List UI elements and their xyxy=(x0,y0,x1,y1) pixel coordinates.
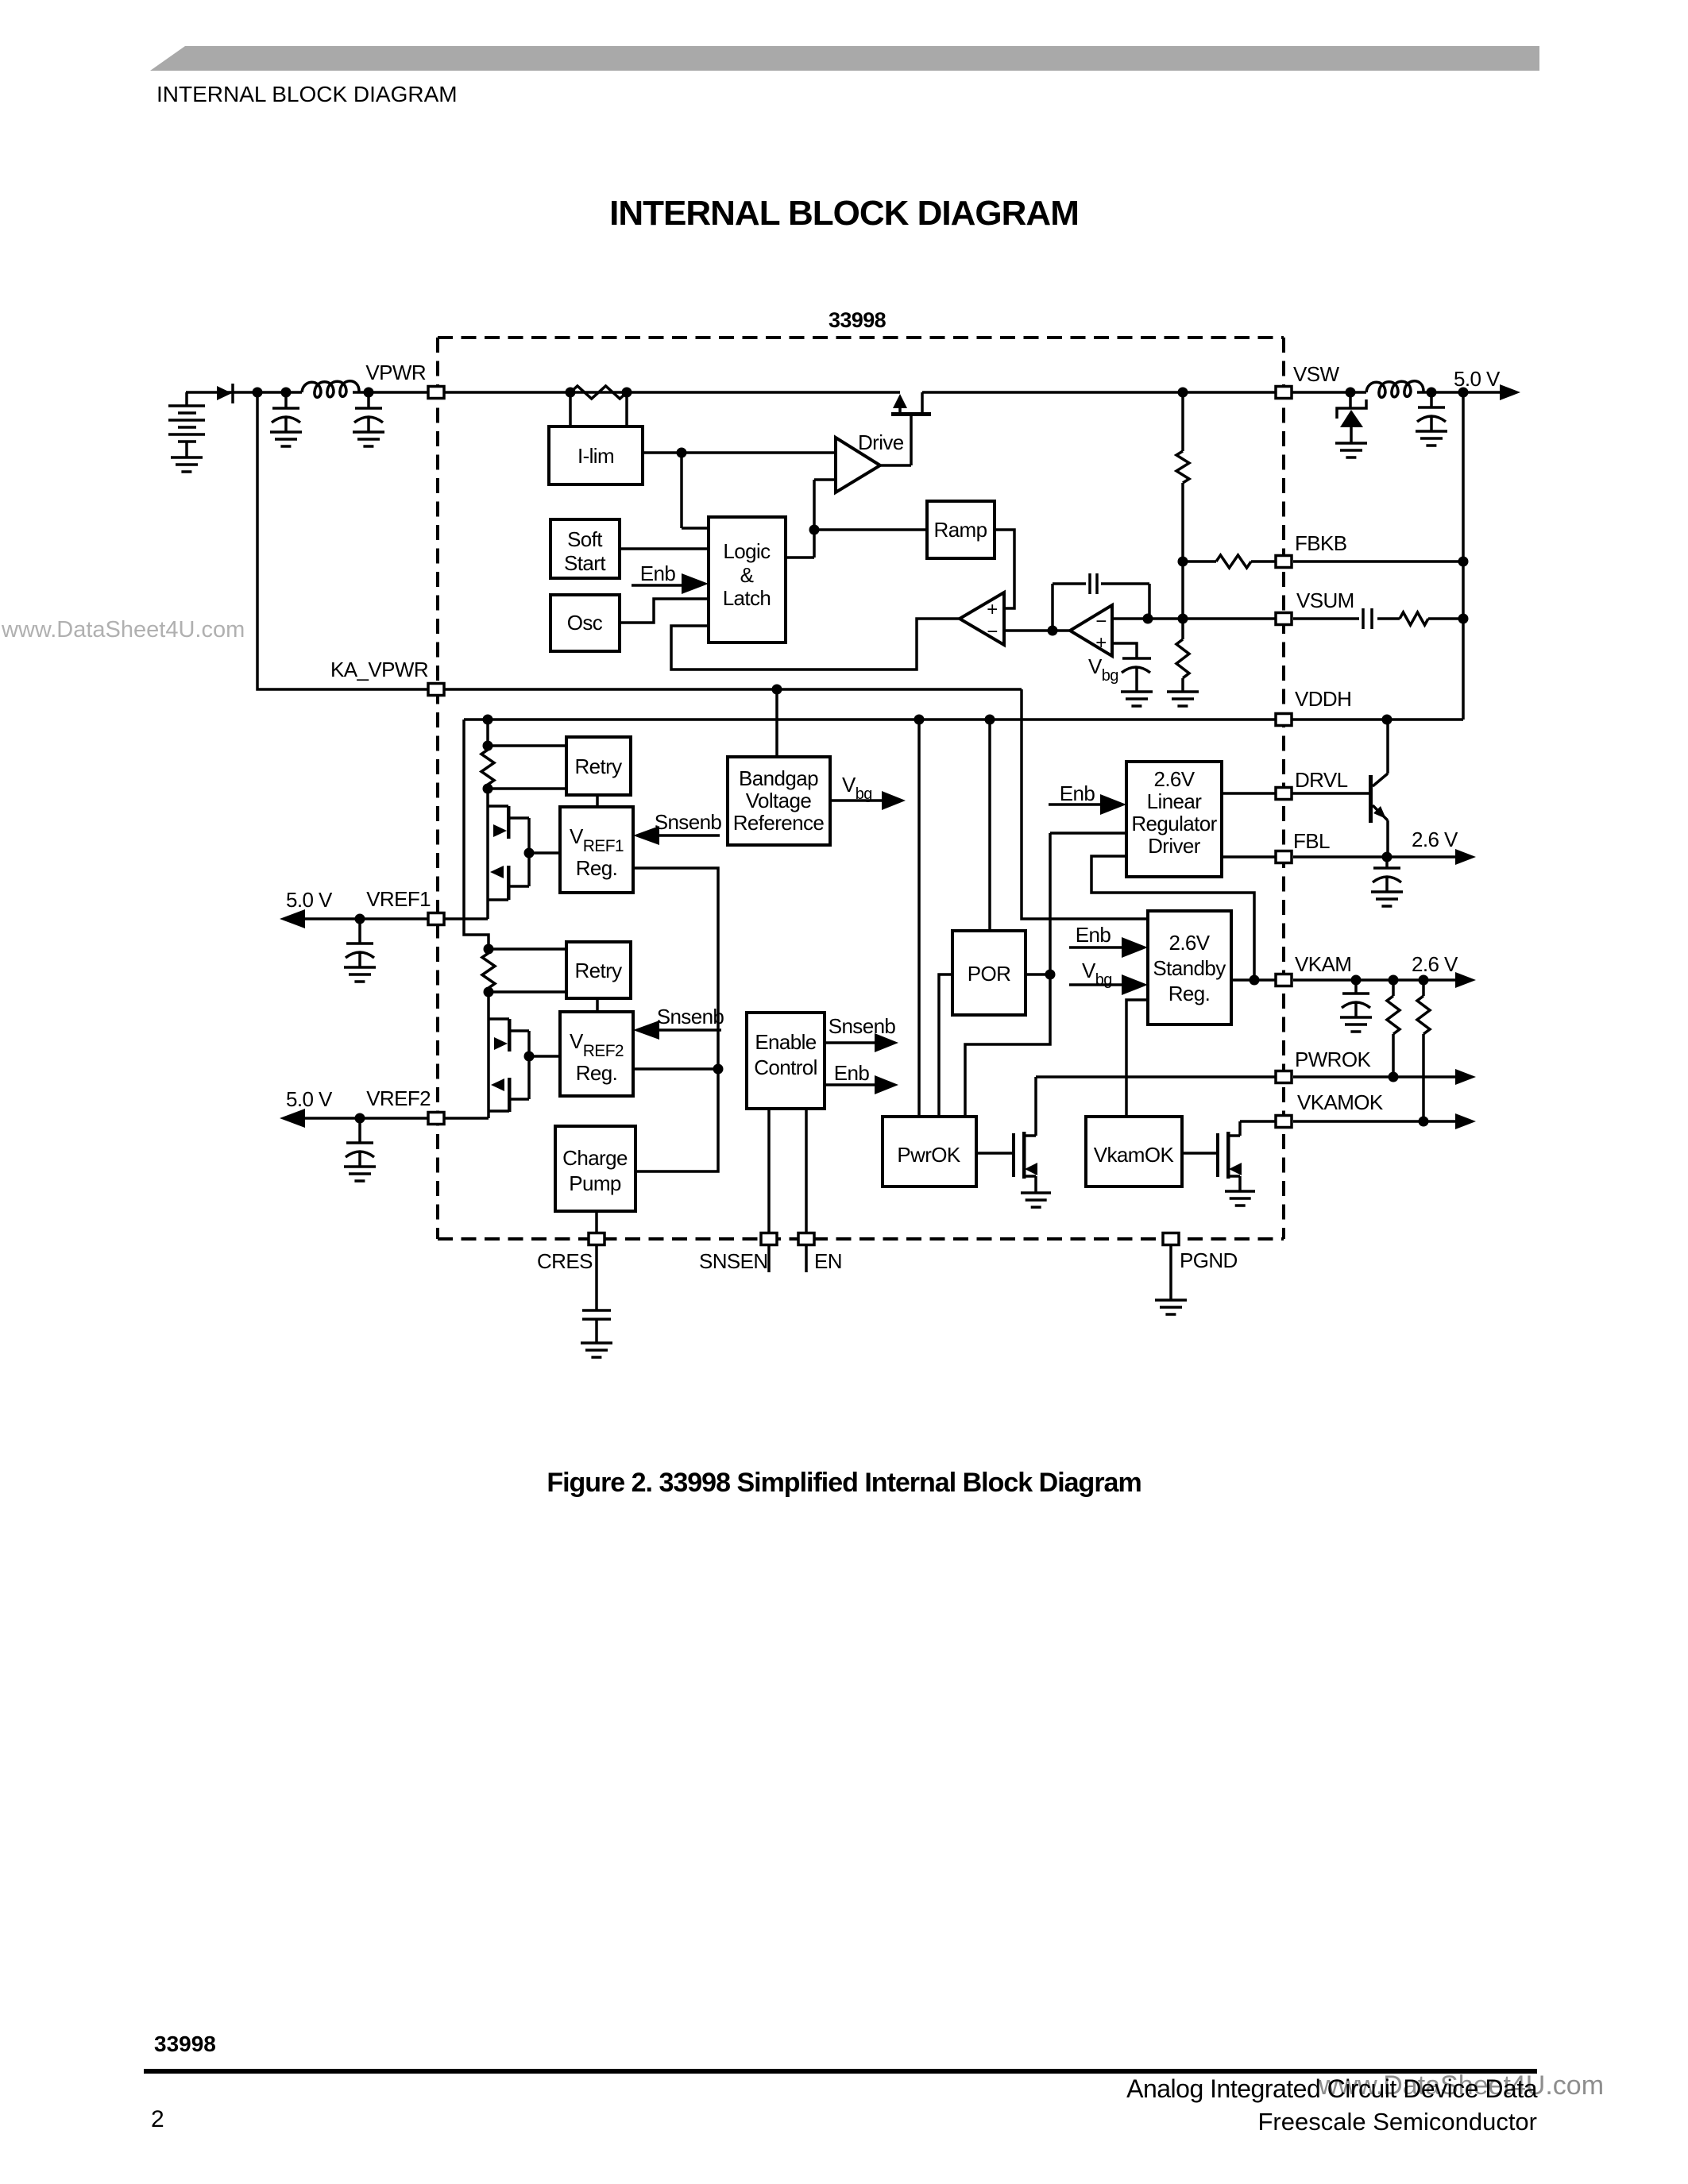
arrow - VKAMOK output xyxy=(1455,1113,1476,1129)
block Enable Control U15 xyxy=(747,1013,825,1109)
pin VDDH xyxy=(1276,714,1292,726)
wire - rail from Q1 to VSW pin xyxy=(922,391,1366,394)
wire - PWROK row xyxy=(1036,1075,1278,1078)
node J30 - R8 joins PWROK xyxy=(1389,1072,1399,1082)
svg-text:Charge: Charge xyxy=(562,1146,628,1170)
node J2 - after L1 xyxy=(364,388,374,398)
label Enb (enable out) xyxy=(834,1061,870,1085)
wire - POR node up to Linear Reg Driver xyxy=(1050,833,1126,974)
svg-text:I-lim: I-lim xyxy=(577,444,614,468)
pin VPWR xyxy=(428,387,444,399)
label Enb (linear reg) xyxy=(1060,781,1095,805)
arrow - VREF1 5.0V output (left) xyxy=(280,909,305,928)
arrow - Vbg output xyxy=(882,791,906,810)
wire - 5V output xyxy=(1417,391,1500,394)
node J14 - 5.0V output tap xyxy=(1458,388,1469,398)
svg-text:2.6 V: 2.6 V xyxy=(1412,952,1458,976)
node J11 - VSUM meets 5V vertical xyxy=(1458,614,1469,624)
svg-text:VSW: VSW xyxy=(1293,362,1339,386)
arrow - FBL 2.6V output xyxy=(1455,849,1476,865)
arrow - Enb output xyxy=(875,1075,898,1094)
label VKAM xyxy=(1295,952,1351,976)
label CRES xyxy=(537,1249,593,1273)
wire - R1 sense taps into I-lim xyxy=(570,392,627,426)
svg-text:PGND: PGND xyxy=(1180,1248,1238,1272)
wire - error amp output to PWM comparator - xyxy=(1004,629,1070,632)
node J9 - FBKB node on divider xyxy=(1178,557,1188,567)
svg-text:+: + xyxy=(987,599,997,620)
pin EN xyxy=(798,1233,814,1245)
ground - Q4 source xyxy=(1021,1193,1051,1207)
node J19 - NPN collector tap on VDDH xyxy=(1382,715,1393,725)
label VPWR xyxy=(365,361,426,384)
wire - PWM comparator output loop to Logic xyxy=(671,619,960,669)
ground - PGND xyxy=(1155,1300,1187,1314)
svg-text:VDDH: VDDH xyxy=(1295,687,1351,711)
node J8 - rail tap for divider xyxy=(1178,388,1188,398)
svg-text:Snsenb: Snsenb xyxy=(829,1014,896,1038)
wire - PGND stem xyxy=(1169,1245,1172,1300)
label KA_VPWR xyxy=(330,658,428,681)
block Osc U3 xyxy=(550,595,620,651)
svg-text:Pump: Pump xyxy=(569,1171,621,1195)
block Soft Start U2 xyxy=(550,519,620,578)
arrow - Enb into Linear Reg Driver xyxy=(1100,794,1126,815)
ground - below C9 xyxy=(581,1343,612,1357)
wire - input rail L1 to VPWR pin and on to pass FET xyxy=(353,391,900,394)
arrow - Enb into Logic & Latch xyxy=(682,573,709,594)
svg-text:Control: Control xyxy=(754,1055,817,1079)
capacitor C10 (FBL bypass to ground) xyxy=(1371,857,1403,906)
transistor Q6 (VKAMOK open-drain) xyxy=(1216,1121,1242,1191)
arrow - Snsenb into VREF2 Reg xyxy=(633,1021,659,1040)
svg-text:5.0 V: 5.0 V xyxy=(1454,367,1501,391)
label 5.0 V (VREF2) xyxy=(286,1087,333,1111)
transistor Q3 (VREF2 pass pair) xyxy=(489,992,529,1118)
node J12 - VSW switch node xyxy=(1346,388,1356,398)
capacitor C3 (error amp feedback) xyxy=(1053,573,1149,631)
node J25 - R7 bottom xyxy=(484,987,494,997)
pin CRES xyxy=(589,1233,605,1245)
label VSW xyxy=(1293,362,1339,386)
wire - Osc to Logic xyxy=(620,599,709,623)
capacitor C9 (CRES reservoir) xyxy=(582,1310,611,1343)
label 5.0 V (top right) xyxy=(1454,367,1501,391)
capacitor C6 (5V output, to ground) xyxy=(1416,392,1447,446)
svg-text:Regulator: Regulator xyxy=(1131,812,1217,835)
svg-text:Logic: Logic xyxy=(723,539,771,563)
wire - POR right output xyxy=(1026,973,1050,976)
page title xyxy=(0,194,1688,233)
wire - Standby Reg to VkamOK xyxy=(1126,1000,1148,1117)
wire - Snsenb stub VREF1 xyxy=(659,834,720,837)
wire - FBKB pin to output node xyxy=(1293,560,1463,563)
inductor L2 (output filter) xyxy=(1366,381,1423,398)
svg-text:Enb: Enb xyxy=(640,561,676,585)
label VKAMOK xyxy=(1297,1090,1384,1114)
node J18 - rail tap to POR xyxy=(985,715,995,725)
arrow - Snsenb output xyxy=(875,1033,898,1052)
wire - KA_VPWR down to standby reg xyxy=(1022,689,1148,919)
block VREF1 Reg U10 xyxy=(560,807,633,893)
block 2.6V Linear Regulator Driver U18 xyxy=(1126,762,1222,877)
label PGND xyxy=(1180,1248,1238,1272)
svg-text:2.6V: 2.6V xyxy=(1168,931,1210,955)
svg-text:Reg.: Reg. xyxy=(1168,982,1211,1005)
capacitor C4 (Vbg reference, to ground) xyxy=(1121,658,1153,706)
block Retry U9 xyxy=(566,737,631,795)
node J27 - VREF2 bypass tap xyxy=(355,1113,365,1124)
wire - POR left output down to PwrOK xyxy=(939,974,952,1117)
node J10 - FBKB meets 5V vertical xyxy=(1458,557,1469,567)
svg-text:Reference: Reference xyxy=(733,811,825,835)
svg-text:VKAMOK: VKAMOK xyxy=(1297,1090,1384,1114)
pin VREF1 xyxy=(428,913,444,925)
block POR U16 xyxy=(952,931,1026,1015)
header text xyxy=(156,82,458,107)
resistor R1 (current sense on rail) xyxy=(566,386,632,399)
pin VKAM xyxy=(1276,974,1292,986)
wire - Soft Start to Logic xyxy=(620,547,709,550)
wire - Retry2 to VREF2 Reg xyxy=(596,998,599,1012)
svg-text:2.6 V: 2.6 V xyxy=(1412,828,1458,851)
wire - SNSEN pin drop xyxy=(767,1109,771,1272)
svg-text:+: + xyxy=(1095,632,1106,654)
wire - VREF1 sense riser xyxy=(486,720,489,746)
capacitor C2 (input filter, to ground) xyxy=(353,392,384,446)
wire - error amp + input to Vbg reference cap xyxy=(1112,643,1137,658)
node J16 - rail tap VREF1 resistor xyxy=(483,715,493,725)
wire - Enb stub into Logic xyxy=(632,584,683,587)
block Logic & Latch U4 xyxy=(709,517,786,642)
svg-text:Reg.: Reg. xyxy=(576,1061,618,1085)
label Vbg (standby) xyxy=(1082,959,1112,989)
label Enb (logic enable) xyxy=(640,561,676,585)
label Snsenb (VREF2) xyxy=(657,1005,724,1028)
svg-text:VkamOK: VkamOK xyxy=(1094,1143,1175,1167)
svg-text:Bandgap: Bandgap xyxy=(739,766,818,790)
resistor R6 (VREF1 sense) xyxy=(481,746,494,789)
node J5 - error amp output / feedback cap xyxy=(1048,626,1058,636)
node J28 - bus junction xyxy=(713,1064,724,1075)
header gray bar xyxy=(0,0,1688,79)
svg-text:&: & xyxy=(740,563,754,587)
svg-text:Retry: Retry xyxy=(574,959,622,982)
node J4 - Logic/Ramp/Drive branch xyxy=(809,525,820,535)
svg-text:Latch: Latch xyxy=(723,586,771,610)
svg-text:VPWR: VPWR xyxy=(365,361,426,384)
svg-text:Driver: Driver xyxy=(1148,834,1201,858)
wire - VREF1 Reg output bus down to Charge Pump xyxy=(633,868,718,1171)
transistor Q5 (NPN linear pass) xyxy=(1369,720,1388,857)
capacitor C8 (VREF2 bypass to ground) xyxy=(344,1118,376,1181)
svg-text:Enb: Enb xyxy=(1076,923,1111,947)
block Retry U11 xyxy=(566,942,631,998)
footer xyxy=(154,2032,216,2057)
label FBKB xyxy=(1295,531,1347,555)
wire - VREF2 pin wire xyxy=(305,1117,489,1120)
wire - gates to VREF2 Reg xyxy=(529,1055,560,1058)
wire - Vbg stub standby xyxy=(1069,983,1122,986)
arrow - 5.0 V output xyxy=(1500,384,1520,400)
wire - VKAMOK row xyxy=(1240,1120,1455,1123)
wire - Retry1 to VREF1 Reg xyxy=(596,795,599,807)
svg-text:Reg.: Reg. xyxy=(576,856,618,880)
arrow - Enb into Standby Reg xyxy=(1122,937,1148,958)
svg-text:Enable: Enable xyxy=(755,1030,816,1054)
arrow - VKAM 2.6V output xyxy=(1455,972,1476,988)
pin SNSEN xyxy=(761,1233,777,1245)
wire - Enb stub standby xyxy=(1069,946,1122,949)
resistor R5 (VSUM compensation) xyxy=(1400,612,1428,625)
wire - FBKB row to pin xyxy=(1183,560,1278,563)
svg-text:Enb: Enb xyxy=(834,1061,870,1085)
node J24 - R7 top xyxy=(484,944,494,955)
label DRVL xyxy=(1295,768,1348,792)
wire - FBL row xyxy=(1222,855,1455,859)
pin VKAMOK xyxy=(1276,1116,1292,1128)
wire - PWROK pin to output xyxy=(1293,1075,1455,1078)
wire - VkamOK to Q6 gate xyxy=(1182,1152,1218,1155)
block Charge Pump U13 xyxy=(555,1126,635,1211)
watermark left xyxy=(2,617,245,643)
wire - R7 taps to Retry2 xyxy=(489,949,566,992)
wire - Ramp output to PWM comparator + xyxy=(995,530,1014,608)
resistor R9 (VKAM to VKAMOK pull-up) xyxy=(1417,980,1430,1121)
node J29 - POR output node xyxy=(1045,970,1056,980)
svg-text:5.0 V: 5.0 V xyxy=(286,888,333,912)
node J20 - R6 top xyxy=(483,741,493,751)
svg-text:Soft: Soft xyxy=(567,527,603,551)
wire - rail to PwrOK xyxy=(917,720,921,1117)
pin FBKB xyxy=(1276,556,1292,568)
node J7 - divider joins VSUM xyxy=(1178,614,1188,624)
wire - gates to VREF1 Reg xyxy=(529,851,560,855)
wire - Snsenb stub VREF2 xyxy=(659,1028,721,1032)
node J13 - after L2 xyxy=(1427,388,1437,398)
op-amp error amplifier U8 xyxy=(1070,605,1112,656)
svg-text:Standby: Standby xyxy=(1153,956,1226,980)
pin PWROK xyxy=(1276,1071,1292,1083)
wire - bandgap supply riser xyxy=(775,689,778,757)
label VREF2 xyxy=(366,1086,431,1110)
resistor R4 (FBKB series) xyxy=(1216,555,1251,568)
wire - KA_VPWR rail across chip xyxy=(430,688,1022,691)
svg-text:FBL: FBL xyxy=(1293,829,1330,853)
label Enb (standby) xyxy=(1076,923,1111,947)
wire - I-lim output to Drive and Logic xyxy=(643,453,836,528)
label PWROK xyxy=(1295,1048,1371,1071)
svg-text:Linear: Linear xyxy=(1147,789,1203,813)
wire - inner rail left drop to VREF2 resistor xyxy=(464,720,489,949)
pin VREF2 xyxy=(428,1113,444,1125)
capacitor C7 (VREF1 bypass to ground) xyxy=(344,919,376,982)
wire - Charge Pump to CRES pin xyxy=(595,1211,598,1310)
svg-text:−: − xyxy=(987,621,997,642)
svg-text:VREF2: VREF2 xyxy=(366,1086,431,1110)
wire - VDDH inner rail xyxy=(464,718,1463,721)
wire - DRVL row to NPN base xyxy=(1222,792,1370,795)
label Drive xyxy=(858,430,904,454)
wire - battery to VPWR input rail xyxy=(186,391,302,394)
block PwrOK U17 xyxy=(883,1117,976,1187)
label Snsenb (VREF1) xyxy=(655,810,722,834)
node J23 - VREF1 bypass tap xyxy=(355,914,365,924)
pin DRVL xyxy=(1276,788,1292,800)
node J15 - bandgap tap xyxy=(772,685,782,695)
resistor R8 (VKAM to PWROK pull-up) xyxy=(1387,980,1400,1077)
ground - below R3 xyxy=(1167,692,1199,706)
node J1 - KA_VPWR tap on input rail xyxy=(253,388,263,398)
label Vbg at bandgap xyxy=(842,773,872,803)
label 2.6 V (VKAM) xyxy=(1412,952,1458,976)
label VREF1 xyxy=(366,887,431,911)
label Snsenb (enable out) xyxy=(829,1014,896,1038)
wire - POR node jog down to PwrOK xyxy=(965,974,1050,1117)
svg-text:PWROK: PWROK xyxy=(1295,1048,1371,1071)
node J26 - Q3 gates to VREF2 Reg xyxy=(524,1051,535,1062)
op-amp PWM comparator U7 xyxy=(960,592,1004,645)
svg-text:Vbg: Vbg xyxy=(842,773,872,803)
node J33 - C11 tap xyxy=(1351,975,1362,986)
svg-text:2.6V: 2.6V xyxy=(1153,767,1195,791)
label SNSEN xyxy=(699,1249,768,1273)
battery B1 (multi-cell with ground) xyxy=(168,392,205,472)
capacitor C5 (VSUM compensation) xyxy=(1363,608,1372,629)
svg-text:Osc: Osc xyxy=(567,611,603,635)
label Vbg at error amp xyxy=(1088,654,1118,685)
node J34 - R8 tap xyxy=(1389,975,1399,986)
node J22 - Q2 gates to VREF1 Reg xyxy=(524,848,535,859)
node J35 - R9 tap xyxy=(1419,975,1429,986)
block 2.6V Standby Reg U19 xyxy=(1148,911,1231,1024)
svg-text:SNSEN: SNSEN xyxy=(699,1249,768,1273)
wire - R6 taps to Retry1 xyxy=(488,746,566,789)
block Ramp U6 xyxy=(927,501,995,558)
wire - Logic output to Drive input and Ramp xyxy=(786,480,927,558)
transistor Q4 (PWROK open-drain) xyxy=(1012,1077,1037,1193)
label FBL xyxy=(1293,829,1330,853)
transistor Q2 (VREF1 pass pair) xyxy=(488,789,529,919)
wire - Enb output stub xyxy=(825,1083,875,1086)
svg-text:VREF1: VREF1 xyxy=(366,887,431,911)
resistor R3 (lower FBKB divider) xyxy=(1176,639,1189,692)
block I-lim U1 xyxy=(549,426,643,484)
wire - VSUM net (error amp - to pin) xyxy=(1112,617,1278,620)
inductor L1 (input filter) xyxy=(302,381,359,398)
svg-text:Vbg: Vbg xyxy=(1088,654,1118,685)
svg-text:PwrOK: PwrOK xyxy=(897,1143,961,1167)
transistor Q1 (high-side pass MOSFET) xyxy=(891,392,931,416)
wire - Drive output to pass FET gate xyxy=(880,414,911,465)
node J6 - feedback cap joins VSUM xyxy=(1143,614,1153,624)
wire - EN pin drop xyxy=(805,1109,808,1272)
node J21 - R6 bottom xyxy=(483,784,493,794)
capacitor C11 (VKAM bypass to ground) xyxy=(1340,980,1372,1032)
pin FBL xyxy=(1276,851,1292,863)
wire - Enb stub linear reg xyxy=(1049,803,1101,806)
label 33998 (IC) xyxy=(829,308,886,332)
wire - VREF2 Reg output joins bus xyxy=(633,1067,718,1071)
svg-text:Retry: Retry xyxy=(574,754,622,778)
diode D1 (series reverse-protect) xyxy=(217,384,233,403)
arrow - Snsenb into VREF1 Reg xyxy=(633,826,659,845)
pin VSW xyxy=(1276,387,1292,399)
wire - PwrOK to Q4 gate xyxy=(976,1152,1014,1155)
svg-text:5.0 V: 5.0 V xyxy=(286,1087,333,1111)
wire - Snsenb output stub xyxy=(825,1041,875,1044)
wire - VKAM row xyxy=(1231,978,1455,982)
svg-text:Enb: Enb xyxy=(1060,781,1095,805)
wire - VREF1 pin wire xyxy=(305,917,488,920)
svg-text:Ramp: Ramp xyxy=(934,518,987,542)
arrow - VREF2 5.0V output (left) xyxy=(280,1109,305,1128)
label 5.0 V (VREF1) xyxy=(286,888,333,912)
node J36 - R9 joins VKAMOK xyxy=(1419,1117,1429,1127)
pin VSUM xyxy=(1276,613,1292,625)
wire - Vbg output stub xyxy=(830,799,883,802)
ground - Q6 source xyxy=(1225,1191,1255,1206)
arrow - Vbg into Standby Reg xyxy=(1122,974,1148,995)
svg-text:EN: EN xyxy=(814,1249,842,1273)
svg-text:POR: POR xyxy=(968,962,1011,986)
label 2.6 V (FBL) xyxy=(1412,828,1458,851)
IC boundary 33998 (dashed) xyxy=(438,338,1284,1239)
svg-text:Drive: Drive xyxy=(858,430,904,454)
wire - linear reg feedback to VKAM net xyxy=(1091,856,1254,980)
pin PGND xyxy=(1163,1233,1179,1245)
svg-text:DRVL: DRVL xyxy=(1295,768,1348,792)
wire - KA_VPWR feed down and right to pin xyxy=(257,392,430,689)
figure caption xyxy=(0,1468,1688,1499)
block Bandgap Voltage Reference U14 xyxy=(728,757,830,845)
op-amp Drive buffer U5 xyxy=(836,438,880,492)
svg-text:KA_VPWR: KA_VPWR xyxy=(330,658,428,681)
resistor R7 (VREF2 sense) xyxy=(482,949,495,992)
wire - 5V vertical to FBKB/VSUM/VDDH xyxy=(1462,392,1465,720)
svg-text:VKAM: VKAM xyxy=(1295,952,1351,976)
diode D2 (catch schottky to ground) xyxy=(1335,392,1367,457)
svg-text:Start: Start xyxy=(564,551,606,575)
svg-text:−: − xyxy=(1095,611,1106,632)
svg-text:Snsenb: Snsenb xyxy=(655,810,722,834)
capacitor C1 (input filter, to ground) xyxy=(270,388,302,447)
wire - VSUM pin to compensation network xyxy=(1293,617,1463,620)
label VSUM xyxy=(1296,588,1354,612)
block VREF2 Reg U12 xyxy=(560,1012,633,1096)
node J17 - rail tap to PwrOK xyxy=(914,715,925,725)
svg-text:Snsenb: Snsenb xyxy=(657,1005,724,1028)
svg-text:33998: 33998 xyxy=(829,308,886,332)
node J31 - Q5 emitter on FBL xyxy=(1382,852,1393,862)
wire - POR supply riser xyxy=(988,720,991,931)
resistor R2 (upper FBKB divider) xyxy=(1176,392,1189,639)
svg-text:FBKB: FBKB xyxy=(1295,531,1347,555)
block VkamOK U20 xyxy=(1086,1117,1182,1187)
node J32 - VKAM feedback node xyxy=(1250,975,1260,986)
svg-text:VSUM: VSUM xyxy=(1296,588,1354,612)
arrow - PWROK output xyxy=(1455,1069,1476,1085)
label EN xyxy=(814,1249,842,1273)
node J3 - I-lim output branch xyxy=(677,448,687,458)
pin KA_VPWR xyxy=(428,684,444,696)
label VDDH xyxy=(1295,687,1351,711)
svg-text:Voltage: Voltage xyxy=(746,789,812,812)
svg-text:CRES: CRES xyxy=(537,1249,593,1273)
